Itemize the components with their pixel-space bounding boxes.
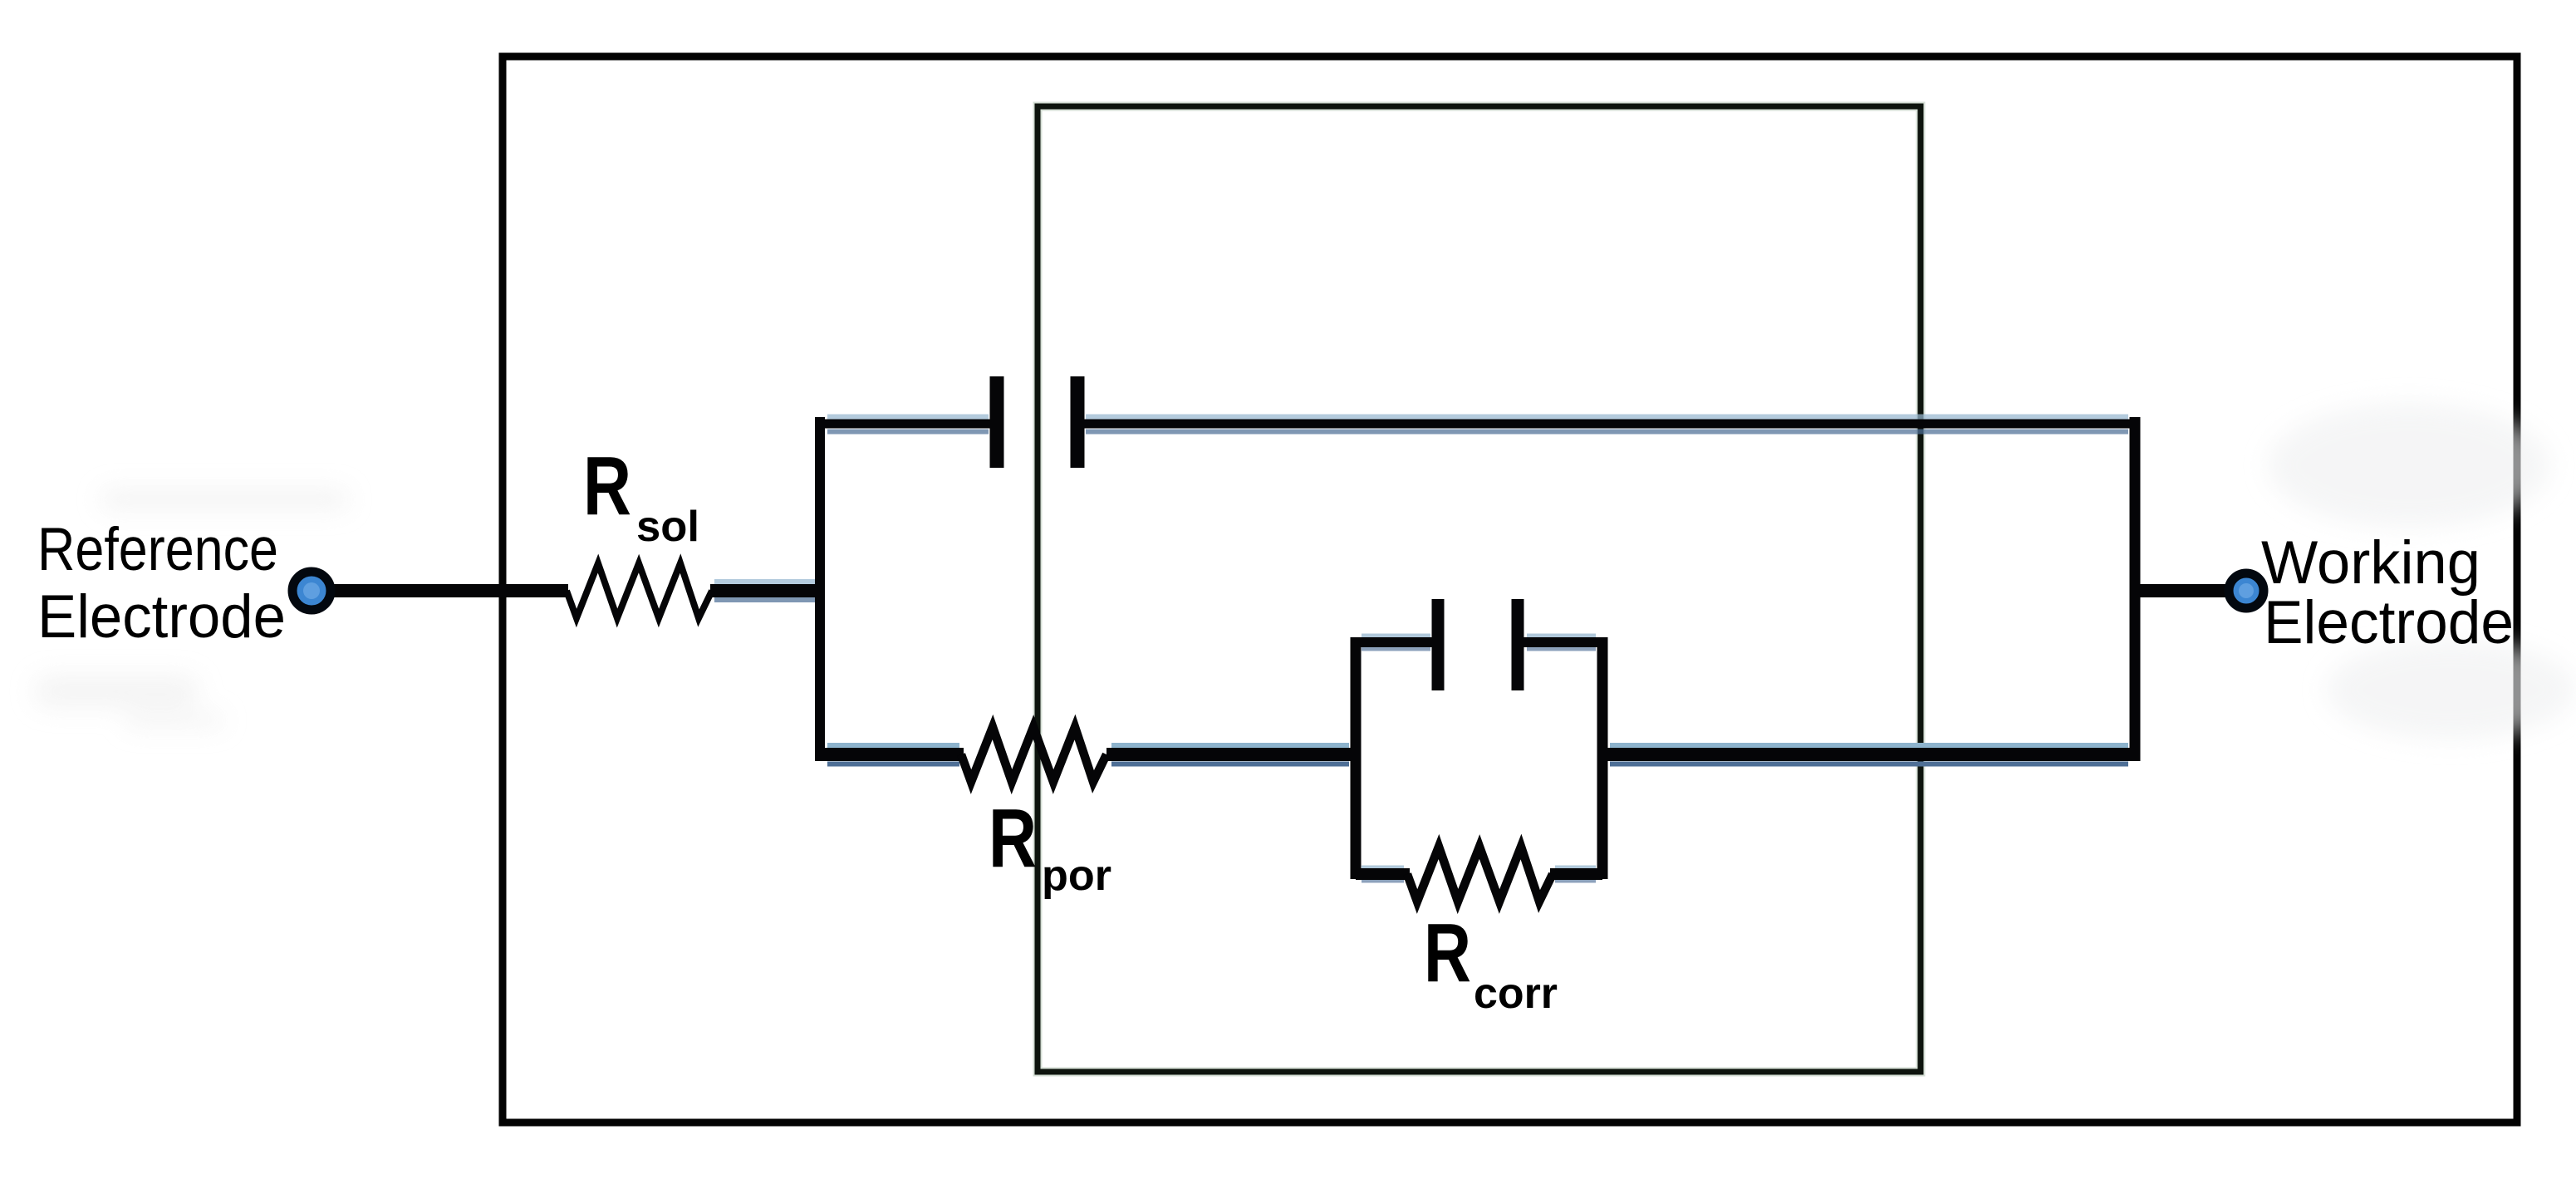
label R_sol — [583, 440, 699, 551]
ghost smudge above Reference label — [33, 489, 349, 728]
wire: R_por to parallel combo — [1106, 748, 1356, 761]
svg-text:corr: corr — [1474, 970, 1558, 1018]
wire: combo top-left segment — [1356, 637, 1433, 647]
label R_corr — [1424, 906, 1558, 1018]
combo left vertical bus — [1351, 637, 1362, 879]
resistor R_por (zigzag) — [961, 727, 1106, 782]
capacitor C_corr right plate — [1512, 599, 1524, 690]
label Working Electrode — [2261, 529, 2514, 656]
svg-text:Electrode: Electrode — [2264, 589, 2514, 656]
working terminal dot — [2229, 573, 2264, 608]
node B vertical bus (right branch junction) — [2130, 417, 2141, 761]
wire halo: top branch — [827, 417, 2128, 432]
svg-text:por: por — [1042, 852, 1111, 900]
resistor R_sol (zigzag) — [567, 563, 712, 618]
wire: combo bottom-left segment — [1356, 868, 1410, 880]
inner box (coating region) green halo — [1038, 106, 1921, 1072]
svg-text:R: R — [989, 792, 1037, 885]
svg-text:R: R — [1424, 906, 1471, 1000]
wire: bottom branch, node A to R_por — [820, 748, 964, 761]
wire: reference terminal to R_sol — [320, 584, 568, 597]
wire halo: combo to right bus — [1610, 745, 2128, 764]
wire: combo to right bus — [1602, 748, 2135, 761]
capacitor C_corr left plate — [1432, 599, 1445, 690]
label Reference Electrode — [37, 516, 286, 651]
resistor R_corr (zigzag) — [1407, 847, 1553, 901]
inner box (coating region) — [1038, 106, 1921, 1072]
svg-text:Electrode: Electrode — [37, 583, 286, 651]
combo right vertical bus — [1597, 637, 1608, 879]
capacitor C_c right plate — [1071, 376, 1085, 468]
label R_por — [989, 792, 1111, 900]
wire: top branch right segment — [1082, 420, 2135, 429]
wire: R_sol to node A — [710, 584, 820, 597]
outer box (cell boundary) — [503, 56, 2517, 1123]
wire halo: main wire — [714, 582, 817, 600]
capacitor C_c left plate — [990, 376, 1004, 468]
wire: stub to working terminal — [2135, 584, 2233, 597]
svg-text:Working: Working — [2261, 529, 2480, 597]
svg-text:R: R — [583, 440, 631, 533]
ghost smudge around Working label — [2268, 403, 2575, 739]
wire halo: combo top and bottom segments — [1362, 636, 1596, 881]
wire: combo bottom-right segment — [1550, 868, 1602, 880]
wire: top branch left segment — [820, 420, 992, 429]
reference terminal dot — [292, 572, 331, 610]
node A vertical bus (left branch junction) — [815, 417, 825, 761]
svg-text:sol: sol — [636, 503, 699, 551]
wire halo: R_por to combo — [1111, 745, 1349, 764]
wire: combo top-right segment — [1523, 637, 1602, 647]
svg-text:Reference: Reference — [37, 516, 278, 583]
wire halo: bottom branch left — [827, 745, 959, 764]
